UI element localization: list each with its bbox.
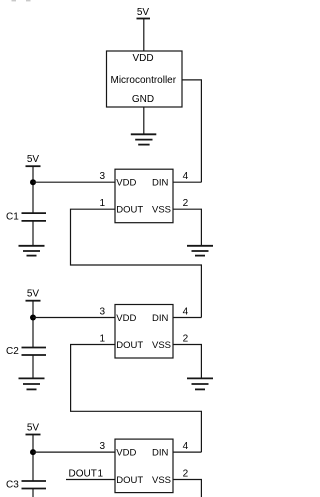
wire C3 down (cut off) [32, 489, 34, 497]
svg-text:DOUT: DOUT [116, 340, 143, 351]
svg-text:5V: 5V [27, 154, 40, 165]
LED driver U4 (stage 3 box) [115, 439, 173, 493]
svg-text:DIN: DIN [152, 313, 169, 324]
svg-text:DIN: DIN [152, 448, 169, 459]
LED driver U2 (stage 1 box) [115, 169, 173, 223]
wire 5V to microcontroller VDD [143, 19, 145, 52]
svg-text:4: 4 [183, 307, 189, 318]
clipped glyph remnant (top edge) [26, 0, 31, 1]
svg-text:C2: C2 [6, 346, 19, 357]
wire node to LED2 pin 3 VDD [33, 317, 115, 319]
LED driver U3 (stage 2 box) [115, 305, 173, 359]
power 5V (stage 3) [26, 423, 41, 435]
ground (C2) [19, 378, 45, 389]
svg-text:3: 3 [99, 441, 105, 452]
svg-text:1: 1 [99, 334, 105, 345]
svg-text:VDD: VDD [116, 448, 136, 459]
svg-text:VDD: VDD [116, 178, 136, 189]
capacitor C2 [22, 348, 47, 356]
svg-text:VSS: VSS [152, 340, 171, 351]
wire microcontroller output to LED1 DIN [182, 80, 201, 182]
svg-text:2: 2 [183, 469, 189, 480]
svg-text:DOUT: DOUT [116, 475, 143, 486]
svg-text:VSS: VSS [152, 205, 171, 216]
svg-text:DIN: DIN [152, 178, 169, 189]
wire LED2 DIN pin 4 [173, 317, 201, 319]
wire LED3 VSS down (cut off) [173, 480, 201, 497]
wire LED2 DOUT to LED3 DIN (chain) [71, 345, 202, 453]
wire LED1 DOUT to LED2 DIN (chain) [71, 209, 202, 317]
wire LED3 DIN pin 4 [173, 451, 201, 453]
power 5V (stage 2) [26, 289, 41, 301]
wire microcontroller GND down [143, 107, 145, 134]
node junction (5V / C1 / LED1 VDD) [30, 179, 36, 185]
svg-text:3: 3 [99, 171, 105, 182]
svg-text:1: 1 [97, 469, 103, 480]
capacitor C3 [22, 481, 47, 489]
svg-text:3: 3 [99, 307, 105, 318]
svg-text:5V: 5V [27, 423, 40, 434]
svg-text:5V: 5V [27, 289, 40, 300]
wire 5V down through node to C1 [32, 166, 34, 213]
node junction (5V / C2 / LED2 VDD) [30, 315, 36, 321]
svg-text:1: 1 [99, 198, 105, 209]
svg-text:VDD: VDD [116, 313, 136, 324]
power 5V (stage 1) [26, 154, 41, 166]
svg-text:VSS: VSS [152, 475, 171, 486]
wire C2 to ground [32, 355, 34, 378]
capacitor C1 [22, 213, 47, 221]
wire 5V down through node to C2 [32, 301, 34, 348]
svg-text:2: 2 [183, 198, 189, 209]
svg-text:DOUT: DOUT [116, 205, 143, 216]
node junction (5V / C3 / LED3 VDD) [30, 449, 36, 455]
svg-text:DOUT: DOUT [69, 469, 97, 480]
wire LED1 VSS to ground [173, 209, 201, 246]
clipped glyph remnant (top edge) [12, 0, 17, 1]
op-amp U? : microcontroller box [107, 51, 183, 107]
wire node to LED1 pin 3 VDD [33, 181, 115, 183]
power 5V (microcontroller supply) [137, 7, 151, 19]
svg-text:5V: 5V [137, 7, 150, 18]
svg-text:4: 4 [183, 171, 189, 182]
svg-text:C3: C3 [6, 480, 19, 491]
svg-text:VDD: VDD [132, 53, 153, 64]
svg-text:2: 2 [183, 334, 189, 345]
wire LED2 VSS to ground [173, 345, 201, 379]
svg-text:GND: GND [132, 94, 154, 105]
ground (C1) [19, 246, 45, 256]
wire LED1 DIN pin 4 [173, 181, 201, 183]
ground (microcontroller) [131, 134, 157, 144]
ground (LED2 VSS) [187, 378, 213, 389]
wire 5V down through node to C3 [32, 435, 34, 482]
wire node to LED3 pin 3 VDD [33, 451, 115, 453]
svg-text:Microcontroller: Microcontroller [111, 75, 177, 86]
svg-text:4: 4 [183, 441, 189, 452]
ground (LED1 VSS) [187, 246, 213, 256]
wire C1 to ground [32, 221, 34, 246]
svg-text:C1: C1 [6, 212, 19, 223]
wire LED3 DOUT stub [66, 479, 115, 481]
